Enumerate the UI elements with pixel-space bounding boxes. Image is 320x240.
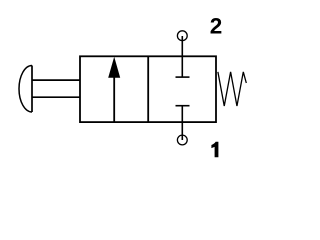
svg-text:2: 2 — [210, 14, 223, 39]
